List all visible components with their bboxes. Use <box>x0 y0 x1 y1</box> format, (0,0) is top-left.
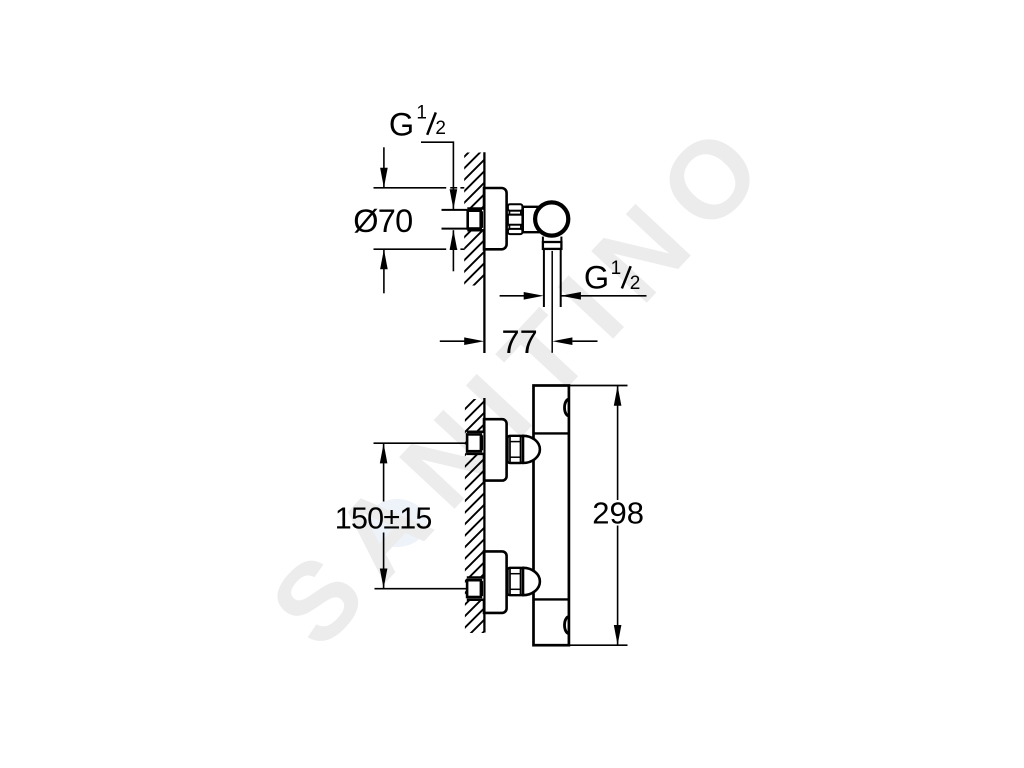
valve inlet block (top view) <box>523 207 553 232</box>
wall hatch (top view) <box>464 153 484 286</box>
dimension Ø70 extension lines <box>374 188 465 249</box>
bar seam line upper <box>534 432 569 434</box>
wall hatch (bottom view) <box>465 399 485 633</box>
label G 1/2 lower <box>584 258 640 296</box>
dimension 298 <box>570 386 645 646</box>
screw arc lower <box>565 617 569 634</box>
svg-text:298: 298 <box>592 495 644 530</box>
escutcheon flange bottom (bottom view) <box>484 551 507 613</box>
svg-text:2: 2 <box>435 118 446 139</box>
dimension 77 <box>440 324 598 360</box>
dimension 150±15 <box>335 443 467 589</box>
escutcheon flange top (bottom view) <box>484 419 507 480</box>
union nut top (bottom view) <box>508 436 524 463</box>
dimension G 1/2 lower (pipe) <box>500 292 647 300</box>
label G 1/2 top <box>389 103 446 143</box>
screw arc upper <box>565 399 569 416</box>
union nut (top view) <box>508 204 523 234</box>
thermostat bar body (bottom view) <box>534 386 569 646</box>
svg-text:G: G <box>584 260 609 296</box>
bar seam line lower <box>534 598 569 600</box>
svg-text:1: 1 <box>416 103 427 124</box>
svg-text:G: G <box>389 106 414 142</box>
wall socket top (bottom view) <box>467 432 484 455</box>
check valve dome bottom (bottom view) <box>523 568 540 595</box>
supply pipe in wall (top view) <box>442 210 469 229</box>
G 1/2 top leader <box>421 142 457 271</box>
watermark glow blob <box>367 499 427 547</box>
wall socket bottom (bottom view) <box>467 577 484 600</box>
dimension Ø70 arrows <box>380 147 388 293</box>
svg-text:2: 2 <box>630 273 641 294</box>
outlet pipe (top view) <box>544 249 561 307</box>
svg-text:77: 77 <box>502 324 538 360</box>
outlet neck below valve (top view) <box>543 237 562 242</box>
svg-text:1: 1 <box>611 258 622 279</box>
pipe centerline extension (top view) <box>551 251 553 353</box>
outlet nut (top view) <box>543 242 562 249</box>
union nut bottom (bottom view) <box>508 568 524 595</box>
wall socket (top view) <box>467 208 484 230</box>
valve body circle (top view) <box>535 202 568 235</box>
escutcheon flange (top view) <box>484 188 507 249</box>
svg-text:Ø70: Ø70 <box>353 203 412 239</box>
svg-text:150±15: 150±15 <box>335 501 432 535</box>
wall face line (top view) <box>483 152 485 353</box>
check valve dome top (bottom view) <box>523 436 540 463</box>
wall face line (bottom view) <box>483 398 485 633</box>
